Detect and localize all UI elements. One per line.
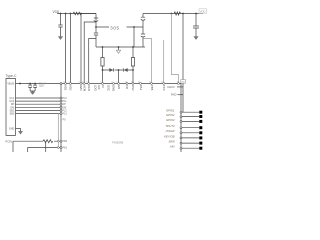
- svg-text:PB1: PB1: [63, 147, 68, 150]
- pin row R6: [181, 137, 199, 139]
- svg-text:VCM: VCM: [83, 85, 87, 92]
- pin numbers top edge: [63, 82, 180, 84]
- wire C6 tap to IC pin5: [89, 39, 96, 84]
- svg-text:SW8: SW8: [168, 140, 175, 144]
- wire gray vert 1: [172, 14, 179, 84]
- junction top bus pin2: [70, 13, 72, 15]
- svg-text:GPIO3: GPIO3: [166, 118, 175, 122]
- svg-text:GN: GN: [117, 85, 121, 89]
- rail AGND: [96, 46, 145, 48]
- IC U1 body: [61, 84, 181, 153]
- svg-text:GND: GND: [9, 128, 15, 131]
- pin row R5: [181, 132, 199, 134]
- svg-text:P13: P13: [63, 113, 68, 116]
- junction net305 right: [133, 26, 135, 28]
- wire top bus right: [143, 13, 203, 15]
- capacitor C5 polarized: [94, 18, 98, 22]
- capacitor C9: [141, 27, 145, 47]
- right side pads: [181, 111, 202, 150]
- svg-text:Type-C: Type-C: [6, 74, 17, 78]
- junction rail a: [102, 46, 104, 48]
- wire VDD to IC pin1: [65, 14, 67, 84]
- svg-text:JTAGR: JTAGR: [166, 129, 175, 133]
- resistor R3: [43, 140, 53, 143]
- node VCC flag: [199, 9, 207, 14]
- svg-text:VDD: VDD: [200, 9, 206, 13]
- junction VBUS: [19, 83, 21, 85]
- junction circles bottom left: [57, 140, 59, 142]
- pin circles right edge: [180, 111, 182, 149]
- pin row R4: [181, 127, 199, 129]
- wire branch down: [45, 141, 47, 152]
- svg-text:PC5V: PC5V: [6, 139, 13, 143]
- resistor R1: [73, 12, 81, 15]
- svg-text:PA4: PA4: [139, 85, 143, 91]
- diode D2: [124, 68, 128, 71]
- junction cap1: [29, 83, 31, 85]
- svg-text:AVD: AVD: [79, 85, 83, 91]
- svg-text:VD2: VD2: [69, 85, 73, 91]
- wire net305 drop: [133, 27, 135, 47]
- pin row R8: [181, 147, 199, 149]
- junction top bus pin1: [65, 13, 67, 15]
- ground GND1: [58, 37, 63, 40]
- capacitor C6: [94, 27, 98, 47]
- svg-text:PB5: PB5: [150, 85, 154, 91]
- svg-text:PC3: PC3: [162, 85, 166, 91]
- wire gray branch to pin: [143, 39, 152, 84]
- junction crystal left: [102, 69, 104, 71]
- svg-text:LDI: LDI: [97, 85, 101, 90]
- connector pin labels: [9, 97, 14, 116]
- resistor R2: [174, 12, 181, 15]
- svg-text:GPIO2: GPIO2: [166, 113, 175, 117]
- svg-text:TP1/T2: TP1/T2: [165, 124, 175, 128]
- svg-text:LDO: LDO: [94, 85, 98, 92]
- pin circles top edge: [65, 83, 180, 85]
- diode D1: [110, 68, 114, 71]
- capacitor C8: [193, 26, 199, 37]
- wire gray vert left: [57, 114, 59, 148]
- junction crystal right: [132, 69, 134, 71]
- wire VDD to IC pin2: [70, 14, 72, 84]
- wire bottom row: [28, 148, 61, 153]
- svg-text:VD1: VD1: [64, 85, 68, 91]
- capacitor CE2: [33, 84, 37, 92]
- junction crystal mid: [118, 69, 120, 71]
- svg-text:DAC0: DAC0: [168, 85, 175, 89]
- wire top bus left: [57, 13, 96, 15]
- pin circles left edge: [60, 83, 62, 149]
- svg-text:VCO: VCO: [87, 85, 91, 92]
- pin labels top edge rotated: [64, 85, 166, 92]
- junction rail b: [118, 46, 120, 48]
- wire stub a: [177, 86, 183, 88]
- svg-text:SB2: SB2: [10, 113, 15, 116]
- six signal wires to IC: [16, 97, 62, 99]
- svg-text:FM2096: FM2096: [112, 140, 123, 144]
- junction cap2: [34, 83, 36, 85]
- junction at C8: [195, 13, 197, 15]
- wire gray vert 2: [163, 40, 165, 84]
- ground GND2: [194, 37, 199, 40]
- svg-text:VBUS: VBUS: [7, 83, 14, 86]
- svg-text:305: 305: [110, 26, 119, 31]
- svg-text:16V: 16V: [39, 85, 44, 88]
- pin row R2: [181, 116, 199, 118]
- pin row R3: [181, 120, 199, 122]
- capacitor CE1: [28, 84, 32, 92]
- svg-text:PB0: PB0: [63, 140, 68, 143]
- junction rail c: [132, 46, 134, 48]
- pin row R7: [181, 142, 199, 144]
- junction net305 left: [95, 26, 97, 28]
- svg-text:GPIO1: GPIO1: [166, 109, 175, 113]
- pin labels left edge inside: [63, 97, 68, 150]
- capacitor CX1 box: [101, 47, 104, 84]
- svg-text:XI: XI: [101, 85, 105, 88]
- junction bus right a: [171, 13, 173, 15]
- wire crystal row: [103, 69, 134, 71]
- wire corner into C5: [95, 14, 97, 28]
- junction bus right b: [182, 13, 184, 15]
- wire caps bottom bus: [30, 90, 35, 93]
- net flag box top right: [181, 80, 186, 84]
- pin row R1: [181, 111, 199, 113]
- svg-text:KEY/OB: KEY/OB: [164, 134, 175, 138]
- svg-text:OSC: OSC: [107, 85, 111, 91]
- wire GND to ground: [16, 129, 21, 132]
- junction top bus at C4: [60, 13, 62, 15]
- wire PC5V: [13, 141, 61, 152]
- ground GND5: [18, 131, 22, 134]
- capacitor C4: [60, 14, 62, 26]
- wire gray vert to pad rail: [182, 14, 184, 113]
- junction after R1: [80, 13, 82, 15]
- wire C5 tap to IC pin4: [84, 22, 96, 84]
- svg-text:GND: GND: [112, 85, 116, 91]
- svg-text:AIN: AIN: [169, 145, 176, 149]
- capacitor C7 polarized: [141, 14, 145, 28]
- capacitor CX2 box: [131, 47, 134, 84]
- svg-text:OS2: OS2: [131, 85, 135, 91]
- svg-text:RXD: RXD: [171, 93, 177, 97]
- ground GND3: [118, 47, 120, 50]
- wire crystal mid to pin: [118, 70, 120, 84]
- right pad labels: [164, 109, 175, 149]
- svg-text:GD: GD: [181, 82, 185, 84]
- ground GND4: [30, 92, 34, 95]
- node net 305: [96, 26, 143, 28]
- wire R1 out to IC pin3: [81, 14, 96, 84]
- wire stub b: [178, 94, 184, 96]
- wire VBUS: [16, 83, 62, 85]
